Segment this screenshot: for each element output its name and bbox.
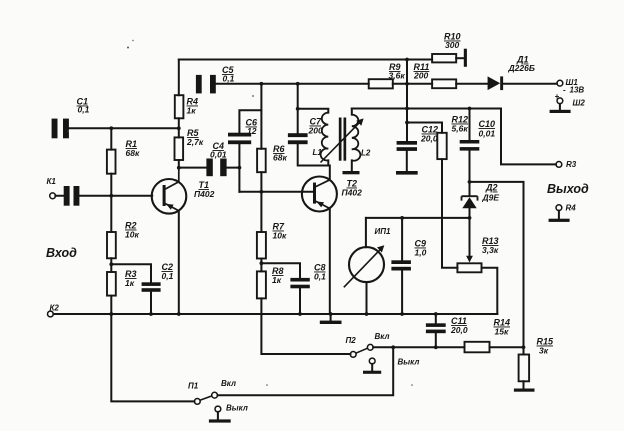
resistor R9 xyxy=(369,79,393,88)
transistor T2 xyxy=(302,177,337,212)
svg-text:15к: 15к xyxy=(495,327,509,337)
capacitor C4 xyxy=(206,159,212,177)
wire C5 rail segments xyxy=(216,83,557,85)
svg-text:Вкл: Вкл xyxy=(221,379,236,388)
svg-text:20,0: 20,0 xyxy=(450,325,468,335)
wire C6 column down to T2 base row xyxy=(238,144,240,192)
svg-text:300: 300 xyxy=(445,40,459,50)
ground bar under R15 xyxy=(514,389,535,392)
svg-text:1к: 1к xyxy=(187,106,197,116)
svg-text:Д9Е: Д9Е xyxy=(482,193,500,203)
wire Sh2 ground stub xyxy=(559,104,561,110)
wire collector node to C4 xyxy=(179,167,240,169)
capacitor C10 xyxy=(460,140,480,144)
resistor R11 xyxy=(432,79,456,88)
wire L2 bottom to ground bar xyxy=(351,160,353,171)
svg-text:12: 12 xyxy=(247,126,257,136)
wire R2 top lead xyxy=(110,196,112,232)
wire P2 off-contact stub xyxy=(371,364,373,371)
wire D2 leads xyxy=(469,182,471,218)
terminal K2 xyxy=(48,311,54,317)
wire C6 top lead and link to R6 column xyxy=(239,110,261,133)
wire 407 column top rail to C12 xyxy=(406,60,408,142)
svg-text:П1: П1 xyxy=(188,382,199,391)
svg-text:L2: L2 xyxy=(361,149,371,158)
svg-text:0,1: 0,1 xyxy=(314,272,326,282)
svg-text:5,6к: 5,6к xyxy=(452,124,469,134)
wire R13 wiper column xyxy=(469,218,471,258)
svg-text:П402: П402 xyxy=(342,188,363,198)
svg-text:L1: L1 xyxy=(313,148,323,157)
terminal R4 output xyxy=(556,205,562,211)
svg-text:Ш2: Ш2 xyxy=(573,99,586,108)
wire tank rail A to L1 top xyxy=(298,109,329,113)
svg-text:10к: 10к xyxy=(273,231,287,241)
capacitor C9 xyxy=(391,260,411,264)
wire rail B to output corner xyxy=(352,109,556,165)
wire R12 bottom down to R13 left xyxy=(442,159,457,268)
wire C1 row to R4/R5 junction xyxy=(69,127,179,129)
capacitor C1 xyxy=(52,119,58,139)
svg-text:68к: 68к xyxy=(126,148,140,158)
wire R15 leads xyxy=(523,347,525,388)
svg-text:-: - xyxy=(563,86,566,95)
wire C8 branch xyxy=(261,263,300,314)
meter IP1 xyxy=(344,245,385,287)
svg-text:0,1: 0,1 xyxy=(162,271,174,281)
svg-text:К2: К2 xyxy=(50,304,60,313)
svg-text:0,1: 0,1 xyxy=(223,74,235,84)
svg-text:3,3к: 3,3к xyxy=(482,245,499,255)
svg-text:1к: 1к xyxy=(125,278,135,288)
svg-text:R4: R4 xyxy=(566,204,577,213)
wire meter top lead xyxy=(365,218,367,247)
svg-text:+: + xyxy=(555,92,560,101)
resistor R3 xyxy=(107,272,116,296)
transistor T1 xyxy=(152,168,187,214)
wire R4 to R5 xyxy=(178,118,180,137)
svg-text:68к: 68к xyxy=(273,153,287,163)
svg-text:0,1: 0,1 xyxy=(78,105,90,115)
svg-text:Д2: Д2 xyxy=(485,183,498,193)
wire R8 bottom down through bus to P2 xyxy=(261,298,350,354)
junction dots xyxy=(177,126,181,130)
svg-text:3к: 3к xyxy=(539,346,549,356)
ground bar under C12 xyxy=(396,171,418,175)
wire R10 right lead to bar xyxy=(456,57,464,59)
transformer core xyxy=(339,118,342,161)
wire R13 right lead to bus end xyxy=(482,268,498,314)
wire P1 column from bus xyxy=(111,314,194,401)
wire P1 to P2 row xyxy=(218,347,394,395)
svg-text:Выкл: Выкл xyxy=(398,358,420,367)
ground bar at R10 right xyxy=(464,49,467,67)
svg-text:Вход: Вход xyxy=(46,246,77,260)
wire C2 branch xyxy=(111,264,151,314)
resistor R1 xyxy=(107,150,116,174)
wire C7 bottom / tank bottom to L1 xyxy=(298,144,329,165)
wire R2/R3 junction and leads xyxy=(110,258,112,314)
svg-text:0,01: 0,01 xyxy=(210,150,227,160)
svg-text:Выход: Выход xyxy=(547,182,589,196)
switch P2 xyxy=(350,344,375,364)
wire ground bus xyxy=(53,313,497,315)
wire C12 bottom to ground xyxy=(406,151,408,171)
wire R5 bottom to collector node xyxy=(178,160,180,168)
wire P2 row to R14 and R15 column junction xyxy=(373,346,523,348)
resistor R8 xyxy=(257,271,266,298)
wire R1 top lead xyxy=(110,128,112,149)
tuning arrow through L1 xyxy=(321,118,364,162)
svg-text:3,6к: 3,6к xyxy=(389,71,406,81)
resistor R6 xyxy=(257,149,266,173)
wire L1 bottom to T2 collector xyxy=(328,160,330,179)
svg-text:C10: C10 xyxy=(479,119,496,129)
inductor L1 xyxy=(321,113,329,161)
svg-text:20,0: 20,0 xyxy=(420,134,438,144)
svg-text:ИП1: ИП1 xyxy=(375,227,392,236)
wire C7 column from rail xyxy=(297,84,299,133)
svg-text:2,7к: 2,7к xyxy=(186,137,204,147)
capacitor C7 xyxy=(288,133,308,137)
wire K1 capacitor to T1 base xyxy=(55,195,152,197)
wire R7 leads xyxy=(260,192,262,272)
resistor R7 xyxy=(257,232,266,259)
ground bar under R4 terminal xyxy=(549,219,570,222)
svg-text:200: 200 xyxy=(308,126,323,136)
capacitor C6 xyxy=(228,133,251,137)
svg-text:0,01: 0,01 xyxy=(479,129,496,139)
terminal R3 output xyxy=(556,162,562,168)
wire R4 terminal ground stub xyxy=(558,211,560,219)
svg-text:П402: П402 xyxy=(194,189,215,199)
R13 wiper arrowhead xyxy=(466,256,473,263)
wire R6 bottom to base row xyxy=(260,172,262,192)
wire meter bottom lead xyxy=(366,282,368,314)
diode D1 xyxy=(488,76,504,90)
svg-text:Выкл: Выкл xyxy=(226,404,248,413)
capacitor C3 input K1 xyxy=(64,186,70,206)
ground bar under P2 off contact xyxy=(363,371,381,374)
ground bar on bus below T2 emitter xyxy=(320,321,342,324)
resistor R13 xyxy=(457,263,481,272)
resistor R10 xyxy=(432,54,456,62)
svg-text:1к: 1к xyxy=(272,275,282,285)
capacitor C12 xyxy=(397,141,417,145)
wire D2 branch right and long column down xyxy=(470,182,524,347)
svg-text:13В: 13В xyxy=(570,86,585,95)
wire R4 top lead xyxy=(178,60,180,96)
capacitor C11 xyxy=(426,323,446,327)
wire T1 emitter down to bus xyxy=(178,211,180,314)
wire C9 leads xyxy=(401,218,403,314)
wire R12 branch xyxy=(407,123,442,133)
terminal K1 xyxy=(50,193,56,199)
ground bar under L2 xyxy=(343,171,360,174)
wire top rail to R10 xyxy=(179,59,432,61)
wire C11 leads xyxy=(435,314,437,347)
resistor R4 xyxy=(175,95,184,118)
switch P1 xyxy=(194,392,220,412)
ground bar under P1 off contact xyxy=(209,419,231,422)
wire R6 column top xyxy=(260,84,262,149)
wire L2 top lead to rail B xyxy=(351,109,353,115)
wire bus ground stub xyxy=(330,314,332,321)
capacitor C8 xyxy=(290,278,309,282)
svg-text:R3: R3 xyxy=(566,160,577,169)
svg-text:Д226Б: Д226Б xyxy=(508,63,535,73)
wire T2 emitter to bus xyxy=(329,209,331,315)
wire meter row xyxy=(366,217,470,219)
terminal Sh2 xyxy=(557,98,563,104)
svg-text:10к: 10к xyxy=(125,230,139,240)
capacitor C2 xyxy=(142,282,161,286)
resistor R14 xyxy=(465,342,490,353)
svg-text:1,0: 1,0 xyxy=(415,248,427,258)
wire C10 column xyxy=(469,109,471,182)
wire T2 base row xyxy=(239,191,313,193)
wire P1 off-contact stub xyxy=(217,412,219,420)
resistor R2 xyxy=(107,232,116,258)
ground bar under Sh2 xyxy=(550,110,571,113)
wire R1 bottom lead xyxy=(110,174,112,196)
resistor R15 xyxy=(519,355,530,382)
resistor R12 xyxy=(437,133,446,159)
svg-text:Вкл: Вкл xyxy=(375,332,390,341)
svg-text:П2: П2 xyxy=(346,336,357,345)
terminal Sh1 xyxy=(557,80,563,86)
specks xyxy=(67,40,412,386)
svg-text:200: 200 xyxy=(413,71,428,81)
capacitor C5 xyxy=(196,75,202,94)
resistor R5 xyxy=(175,137,184,160)
svg-text:К1: К1 xyxy=(47,177,57,186)
diode D2 zener xyxy=(462,196,478,208)
inductor L2 xyxy=(352,115,361,161)
